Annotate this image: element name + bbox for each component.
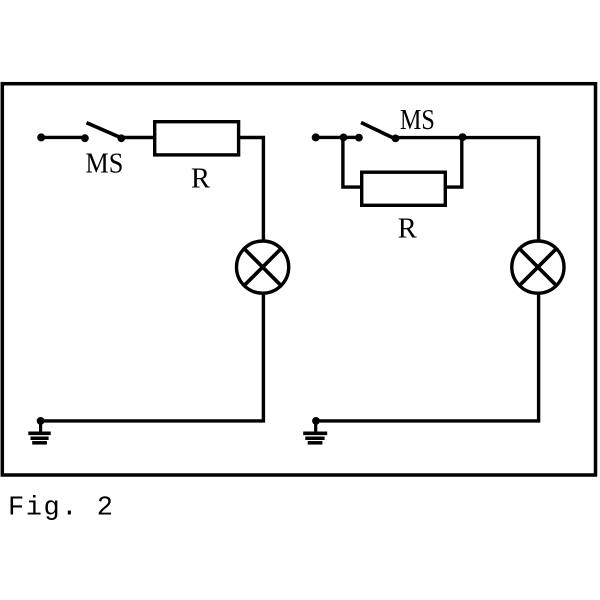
wire MS2 to junction C2	[396, 136, 463, 139]
branch wire B2 down to resistor R2 left lead	[343, 137, 362, 187]
ground G1 bar 2	[31, 436, 49, 440]
lamp L1 cross stroke 2	[243, 248, 282, 287]
lamp L1 circle	[237, 241, 289, 293]
node A2 (right circuit supply terminal)	[312, 133, 320, 141]
svg-text:Fig. 2: Fig. 2	[8, 494, 113, 524]
switch MS2 right contact dot	[392, 135, 400, 143]
junction node C2 dot	[459, 133, 467, 141]
ground G1 bar 3	[32, 441, 47, 445]
junction node B2 dot	[340, 134, 348, 142]
ground G2 bar 1	[303, 431, 327, 435]
lamp L1 cross stroke 1	[243, 248, 282, 287]
lamp L2 cross stroke 2	[518, 248, 557, 287]
ground G1 stem	[39, 421, 42, 432]
border frame	[2, 84, 595, 475]
switch MS1 blade (open)	[87, 123, 124, 139]
resistor R2	[362, 172, 446, 205]
wire lamp L2 to ground G2 (corner)	[316, 293, 539, 421]
ground G1 bar 1	[28, 431, 50, 435]
ground G1 node dot	[37, 417, 45, 425]
svg-text:MS: MS	[400, 105, 435, 136]
wire B2 to switch MS2 left contact	[344, 136, 360, 139]
wire lamp L1 to ground G1 (corner)	[41, 293, 264, 421]
lamp L2 circle	[512, 241, 564, 293]
wire MS1 to resistor R1	[121, 136, 154, 139]
switch MS1 right contact dot	[117, 134, 125, 142]
svg-text:R: R	[398, 214, 417, 245]
switch MS1 left contact dot	[81, 134, 89, 142]
node A1 (left circuit supply terminal)	[37, 133, 45, 141]
ground G2 bar 2	[305, 436, 324, 440]
lamp L2 cross stroke 1	[518, 248, 557, 287]
resistor R1	[155, 122, 239, 155]
ground G2 bar 3	[308, 441, 323, 445]
svg-text:R: R	[191, 163, 210, 194]
switch MS2 left contact dot	[355, 134, 363, 142]
wire A1 to switch MS1 left contact	[41, 136, 85, 139]
ground G2 stem	[314, 421, 317, 432]
wire resistor R1 to lamp L1 (corner)	[239, 138, 264, 242]
ground G2 node dot	[312, 417, 320, 425]
switch MS2 blade (open)	[361, 123, 394, 139]
branch wire resistor R2 right lead up to junction C2	[445, 138, 462, 188]
svg-text:MS: MS	[85, 149, 123, 180]
wire C2 to lamp L2 (corner)	[463, 138, 539, 242]
wire A2 to junction B2	[316, 136, 344, 139]
